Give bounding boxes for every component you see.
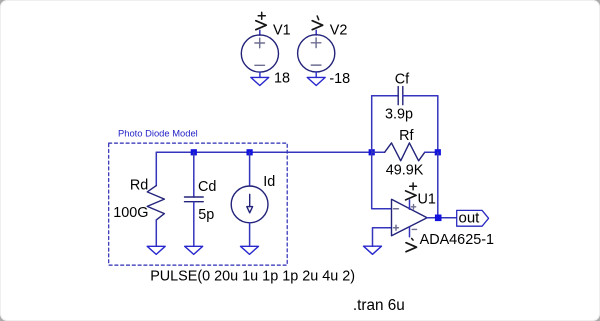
wire (V1 top stem) bbox=[259, 30, 261, 35]
wire (to inverting input) bbox=[372, 152, 392, 209]
svg-text:Cd: Cd bbox=[198, 179, 216, 195]
svg-text:Id: Id bbox=[263, 174, 275, 190]
wire (feedback right riser) bbox=[437, 96, 439, 153]
ground (Id) bbox=[241, 246, 259, 254]
ground (Cd) bbox=[185, 246, 203, 254]
annotation box Photo Diode Model bbox=[109, 143, 288, 265]
junction (output node) bbox=[435, 215, 442, 222]
svg-text:Rf: Rf bbox=[399, 128, 414, 144]
junction (feedback right node) bbox=[435, 149, 441, 155]
ground (V2) bbox=[307, 72, 325, 86]
svg-text:-18: -18 bbox=[329, 71, 350, 87]
wire (feedback left riser) bbox=[371, 96, 373, 153]
net flag - (U1 V- pin) bbox=[406, 238, 417, 251]
junction (Cd tap) bbox=[191, 149, 197, 155]
resistor Rd bbox=[147, 152, 164, 246]
wire (noninverting input) bbox=[373, 228, 392, 247]
wire (V2 top stem) bbox=[315, 30, 317, 35]
voltage source V1 bbox=[241, 35, 278, 72]
capacitor Cd bbox=[185, 152, 204, 246]
svg-text:V1: V1 bbox=[273, 23, 291, 39]
net flag + (U1 V+ pin) bbox=[406, 183, 417, 200]
svg-text:18: 18 bbox=[274, 71, 290, 87]
svg-text:Photo Diode Model: Photo Diode Model bbox=[118, 128, 198, 139]
svg-text:5p: 5p bbox=[198, 207, 214, 223]
junction (Id tap) bbox=[247, 149, 253, 155]
svg-text:49.9K: 49.9K bbox=[386, 163, 424, 179]
svg-text:3.9p: 3.9p bbox=[385, 107, 413, 123]
ground (op-amp + input) bbox=[364, 246, 382, 254]
net flag + (V1 supply) bbox=[256, 12, 266, 30]
ground (Rd) bbox=[147, 246, 165, 254]
svg-text:.tran 6u: .tran 6u bbox=[353, 297, 405, 314]
svg-text:U1: U1 bbox=[418, 192, 436, 208]
wire (output) bbox=[427, 217, 457, 219]
wire (main node, y=152) bbox=[156, 151, 371, 153]
svg-text:Cf: Cf bbox=[395, 72, 410, 88]
net flag - (V2 supply) bbox=[312, 16, 323, 30]
svg-text:ADA4625-1: ADA4625-1 bbox=[420, 232, 494, 248]
capacitor Cf bbox=[372, 87, 438, 105]
svg-text:100G: 100G bbox=[113, 205, 148, 221]
current source Id bbox=[231, 152, 268, 246]
svg-text:out: out bbox=[459, 210, 481, 227]
wire (feedback to output) bbox=[437, 152, 439, 218]
svg-text:V2: V2 bbox=[330, 23, 348, 39]
resistor Rf bbox=[372, 143, 438, 161]
voltage source V2 bbox=[298, 35, 335, 72]
ground (V1) bbox=[251, 72, 269, 85]
op-amp U1 bbox=[392, 199, 428, 237]
net label out bbox=[457, 210, 489, 227]
svg-text:Rd: Rd bbox=[130, 178, 148, 194]
junction (inverting node) bbox=[369, 149, 375, 155]
svg-text:PULSE(0 20u 1u 1p 1p 2u 4u 2): PULSE(0 20u 1u 1p 1p 2u 4u 2) bbox=[150, 269, 355, 285]
